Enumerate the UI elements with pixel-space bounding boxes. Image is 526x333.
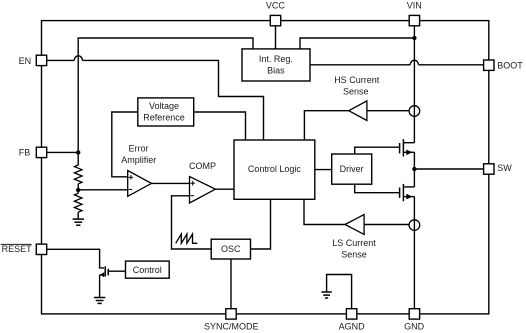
node SW junction [412, 167, 416, 171]
wire error amp output to COMP + input [152, 182, 190, 184]
box Control Logic [234, 140, 315, 199]
wire RESET to small FET drain [47, 249, 104, 268]
node divider midpoint [76, 184, 80, 193]
svg-text:LS Current: LS Current [332, 238, 376, 248]
svg-text:VCC: VCC [266, 0, 286, 10]
svg-text:RESET: RESET [2, 244, 33, 254]
transistor Q1 (high-side FET) [400, 139, 415, 156]
svg-text:Control: Control [133, 265, 162, 275]
svg-text:HS Current: HS Current [334, 75, 380, 85]
svg-text:Bias: Bias [267, 66, 285, 76]
wire Driver to LS gate [355, 184, 399, 193]
svg-text:Error: Error [129, 144, 149, 154]
svg-text:COMP: COMP [189, 161, 216, 171]
comparator COMP [189, 161, 216, 203]
wire Int.Reg.Bias to BOOT [310, 60, 484, 65]
wire HS current sense line [304, 111, 409, 140]
wire FB to divider [47, 151, 78, 153]
wire OSC to COMP - input [172, 196, 212, 249]
wire EN to Control Logic [47, 56, 264, 140]
node FB junction [76, 150, 80, 154]
svg-text:AGND: AGND [339, 322, 366, 332]
pin FB [19, 147, 47, 158]
svg-text:SYNC/MODE: SYNC/MODE [204, 322, 259, 332]
pin RESET (active low) [1, 244, 47, 254]
chip outline border [42, 21, 489, 314]
wire AGND to ground symbol [327, 275, 352, 309]
pin EN [19, 55, 47, 66]
box Control [126, 261, 170, 278]
transistor Q2 (low-side FET) [400, 184, 415, 201]
wire OSC to SYNC/MODE pin [230, 259, 232, 309]
amplifier HS current sense [334, 75, 380, 120]
wire OSC to Control Logic [251, 199, 271, 249]
svg-text:Voltage: Voltage [149, 101, 179, 111]
pin SW [484, 163, 513, 174]
box Driver [332, 154, 372, 184]
box Int. Reg. Bias [242, 49, 310, 81]
wire small FET gate to Control box [108, 270, 125, 272]
wire VIN rail to Int.Reg.Bias taps and FB divider [78, 38, 414, 152]
wire Voltage Reference to error amp + input [112, 112, 138, 177]
node VIN junction [412, 36, 416, 40]
svg-text:VIN: VIN [407, 0, 422, 10]
svg-text:Reference: Reference [143, 112, 185, 122]
svg-text:Int. Reg.: Int. Reg. [259, 54, 293, 64]
wire VCC to Int.Reg.Bias [275, 26, 277, 49]
svg-text:GND: GND [404, 322, 425, 332]
svg-text:Sense: Sense [343, 86, 369, 96]
pin BOOT [484, 60, 524, 71]
svg-text:OSC: OSC [221, 244, 241, 254]
ground below small FET [94, 298, 105, 304]
resistor R1 (divider top) [74, 152, 82, 184]
HS current sense element circle [409, 106, 420, 117]
wire Control Logic to Driver [315, 169, 332, 171]
wire LS source through LS sense circle to GND pin [413, 197, 415, 309]
svg-text:Amplifier: Amplifier [121, 155, 156, 165]
pin SYNC/MODE [204, 309, 259, 332]
wire SW node to SW pin [414, 168, 483, 170]
wire Driver to HS gate [355, 147, 399, 154]
svg-text:BOOT: BOOT [497, 61, 523, 71]
wire Voltage Reference to Control Logic [194, 112, 246, 140]
box OSC [211, 239, 250, 259]
resistor R2 (divider bottom) [74, 193, 82, 219]
pin AGND [339, 309, 366, 332]
wire COMP output to Control Logic [215, 188, 234, 190]
pin GND [404, 309, 425, 332]
sawtooth waveform symbol [176, 234, 198, 243]
wire LS current sense line [304, 199, 409, 224]
wire VIN rail upper (VIN pin through HS sense circle to HS drain) [413, 26, 415, 143]
ground at AGND [321, 292, 331, 298]
ground below divider [73, 219, 84, 225]
op-amp error amplifier [121, 144, 156, 197]
pin VCC [266, 0, 286, 26]
amplifier LS current sense [332, 215, 376, 260]
svg-text:Driver: Driver [340, 164, 364, 174]
svg-text:Sense: Sense [341, 249, 367, 259]
svg-text:SW: SW [497, 163, 512, 173]
box Voltage Reference [138, 98, 194, 126]
svg-text:FB: FB [19, 148, 31, 158]
svg-text:Control Logic: Control Logic [248, 164, 302, 174]
wire divider midpoint to error amp - input [78, 189, 128, 191]
svg-text:EN: EN [19, 56, 32, 66]
wire HS source to SW node and LS drain [413, 152, 415, 187]
pin VIN [407, 0, 422, 26]
LS current sense element circle [409, 220, 420, 231]
transistor Q3 (RESET open-drain FET, gate right) [100, 266, 109, 297]
